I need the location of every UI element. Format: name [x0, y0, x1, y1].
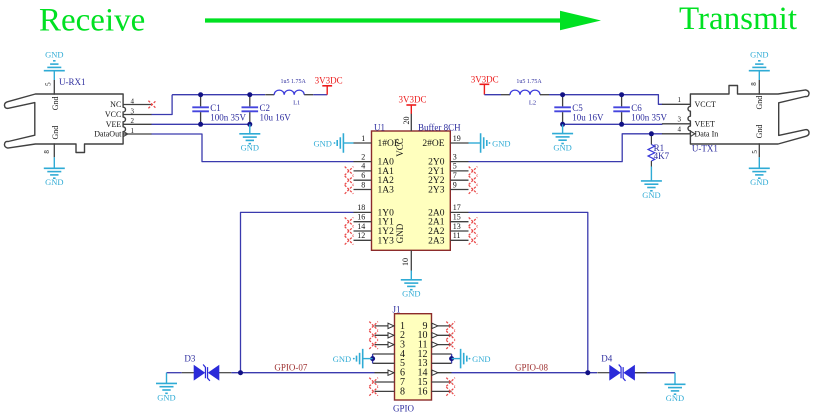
power port 3V3DC left [322, 85, 332, 87]
junction dot R1 top [649, 131, 654, 136]
wire VCC from U-RX1 pin 3 to top rail [152, 95, 173, 115]
svg-text:Buffer 8CH: Buffer 8CH [418, 122, 461, 132]
svg-text:3V3DC: 3V3DC [471, 75, 499, 85]
U1 left pin numbers [357, 134, 365, 240]
no-ERC cross on U-RX1 pin 4 NC [148, 101, 156, 109]
svg-text:10u 16V: 10u 16V [260, 112, 292, 122]
power port 3V3DC above U1 [406, 104, 416, 106]
svg-text:6: 6 [361, 171, 365, 180]
svg-text:GND: GND [750, 177, 768, 187]
svg-text:8: 8 [750, 82, 758, 86]
ground GND below U-RX1 [53, 157, 55, 168]
svg-text:GND: GND [395, 223, 405, 243]
svg-text:D4: D4 [601, 353, 612, 363]
svg-text:GND: GND [333, 354, 351, 364]
svg-text:20: 20 [402, 117, 411, 125]
wire U1 1Y0 to GPIO-07 riser [241, 212, 354, 372]
svg-text:GND: GND [553, 143, 571, 153]
capacitor C1 [200, 95, 202, 106]
wire U1 2Y0 to Data In [469, 134, 663, 162]
svg-text:GND: GND [45, 177, 63, 187]
U-TX1 pin 8 stub [758, 80, 760, 95]
svg-text:3: 3 [453, 152, 457, 161]
J1 right pin stubs [432, 326, 452, 392]
svg-text:5: 5 [751, 150, 759, 154]
svg-text:3: 3 [678, 116, 682, 124]
svg-text:Gnd: Gnd [755, 125, 764, 139]
svg-text:VEET: VEET [695, 119, 716, 128]
U1 right pin names [422, 139, 444, 246]
wire U1 2A0 to GPIO-08 riser [469, 212, 588, 372]
svg-text:1Y3: 1Y3 [378, 236, 395, 246]
svg-text:GPIO-08: GPIO-08 [515, 363, 548, 373]
ground GND above U-TX1 [758, 71, 760, 80]
op-amp U1 buffer body [372, 131, 451, 250]
svg-text:D3: D3 [184, 354, 195, 364]
svg-text:3V3DC: 3V3DC [399, 94, 427, 104]
junction dot J1 right tie [449, 356, 454, 361]
wire DataOut to U1 1A0 [152, 134, 354, 162]
power port 3V3DC right [480, 83, 490, 85]
svg-text:10u 16V: 10u 16V [572, 112, 604, 122]
svg-text:U1: U1 [374, 122, 385, 132]
svg-text:2: 2 [361, 152, 365, 161]
svg-text:VCC: VCC [395, 138, 405, 157]
svg-text:Transmit: Transmit [679, 1, 797, 37]
svg-text:Gnd: Gnd [755, 96, 764, 110]
junction dots RX rails [198, 92, 203, 97]
U-TX1 pin 5 stub [758, 143, 760, 157]
svg-text:VCC: VCC [105, 110, 121, 119]
inductor L2 [501, 94, 510, 96]
capacitor C2 [249, 95, 251, 106]
svg-text:GND: GND [402, 289, 420, 299]
svg-text:L1: L1 [293, 100, 300, 107]
svg-text:17: 17 [453, 203, 461, 212]
ground GND above U-RX1 [53, 71, 55, 80]
svg-text:DataOut: DataOut [94, 130, 122, 139]
svg-text:7: 7 [453, 171, 457, 180]
svg-text:10: 10 [401, 258, 410, 266]
junction dots right rails [560, 92, 565, 97]
J1 pin numbers [400, 321, 428, 398]
ground GND right of J1 [452, 358, 461, 360]
connector J1 body [395, 314, 432, 400]
junction dot GPIO-07 [238, 370, 243, 375]
resistor R1 [650, 136, 652, 145]
svg-text:GND: GND [241, 143, 259, 153]
svg-text:8: 8 [43, 150, 51, 154]
svg-text:2#OE: 2#OE [422, 139, 444, 149]
ground GND left of D3 [166, 373, 168, 384]
ground GND left of J1 [363, 358, 372, 360]
ground GND below U-TX1 [758, 157, 760, 168]
svg-text:1: 1 [361, 134, 365, 143]
U-RX1 pin 5 stub [53, 80, 55, 95]
U1 pin 10 stub [410, 250, 412, 270]
diode D3 TVS [182, 372, 195, 374]
U-RX1 pin stubs [123, 104, 152, 106]
svg-text:GPIO: GPIO [393, 403, 415, 413]
svg-text:8: 8 [361, 180, 365, 189]
svg-text:GPIO-07: GPIO-07 [274, 362, 307, 372]
svg-text:100n 35V: 100n 35V [631, 112, 667, 122]
signal-flow arrow [205, 18, 562, 22]
svg-text:L2: L2 [529, 100, 536, 107]
svg-text:1u5 1.75A: 1u5 1.75A [516, 79, 542, 85]
capacitor C6 [621, 95, 623, 106]
U-TX1 Data In edge marker [690, 131, 695, 136]
junction dot J1 left tie [370, 356, 375, 361]
svg-text:8: 8 [400, 386, 405, 397]
svg-text:GND: GND [472, 354, 490, 364]
svg-text:14: 14 [357, 222, 365, 231]
U-TX1 pin stubs [662, 103, 691, 105]
svg-text:1u5 1.75A: 1u5 1.75A [281, 79, 307, 85]
svg-text:2A3: 2A3 [428, 236, 445, 246]
svg-text:16: 16 [357, 213, 365, 222]
svg-text:NC: NC [110, 100, 121, 109]
svg-text:4: 4 [678, 126, 682, 134]
inductor L1 [265, 94, 274, 96]
svg-text:4K7: 4K7 [654, 151, 670, 161]
svg-text:5: 5 [45, 82, 53, 86]
svg-text:5: 5 [453, 162, 457, 171]
ground GND right of D4 [647, 372, 675, 374]
svg-text:GND: GND [642, 190, 660, 200]
ground GND below R1 [650, 167, 652, 181]
ground GND at U1 pin 19 [469, 142, 481, 144]
wire 3V3DC to L2 [484, 94, 501, 96]
wire GPIO-07 [167, 372, 182, 374]
svg-text:11: 11 [453, 231, 461, 240]
svg-text:Gnd: Gnd [51, 126, 60, 140]
diode D4 TVS [597, 372, 610, 374]
wire RX 3V3 top rail [172, 94, 265, 96]
svg-text:GND: GND [313, 138, 331, 148]
connector U-RX1 body [4, 94, 125, 153]
no-ERC crosses U1 unused pins [345, 167, 478, 245]
U1 right pin stubs [450, 143, 468, 240]
wire GPIO-08 [452, 372, 598, 374]
svg-text:GND: GND [666, 393, 684, 403]
svg-text:12: 12 [357, 231, 365, 240]
wire VCCT top rail [549, 95, 662, 105]
svg-text:GND: GND [157, 392, 175, 402]
svg-text:19: 19 [453, 134, 461, 143]
capacitor C5 [562, 95, 564, 106]
svg-text:2Y3: 2Y3 [428, 186, 445, 196]
svg-text:15: 15 [453, 213, 461, 222]
U1 left pin names [378, 139, 400, 246]
ground GND at U1 pin 1 [344, 142, 354, 144]
svg-text:VEE: VEE [106, 120, 122, 129]
junction dot GPIO-08 [585, 370, 590, 375]
svg-text:U-RX1: U-RX1 [59, 77, 86, 87]
svg-text:1: 1 [678, 96, 682, 104]
ground GND below C2 [249, 124, 251, 134]
U1 pin 20 stub [410, 114, 412, 132]
svg-text:4: 4 [361, 162, 365, 171]
J1 pin arrows [388, 323, 438, 375]
svg-text:13: 13 [453, 222, 461, 231]
connector U-TX1 body [688, 86, 809, 145]
svg-text:Data In: Data In [695, 129, 719, 138]
svg-text:J1: J1 [393, 304, 401, 314]
svg-text:16: 16 [418, 386, 428, 397]
U-RX1 DataOut edge marker [123, 131, 128, 136]
ground GND below C5 [562, 124, 564, 133]
no-ERC crosses J1 unused pins [369, 322, 455, 396]
svg-text:100n 35V: 100n 35V [210, 112, 246, 122]
U-RX1 pin 8 stub [53, 143, 55, 157]
svg-text:GND: GND [492, 138, 510, 148]
wire J1 pins 12-13 tie [451, 354, 453, 363]
svg-text:GND: GND [750, 49, 768, 59]
svg-text:Gnd: Gnd [51, 97, 60, 111]
wire J1 pins 4-5 tie [372, 354, 374, 363]
svg-text:1A3: 1A3 [378, 186, 395, 196]
svg-text:GND: GND [45, 49, 63, 59]
ground GND below U1 pin 10 [410, 271, 412, 280]
wire VEET rail [563, 123, 663, 125]
U1 left pin stubs [354, 143, 372, 240]
svg-text:18: 18 [357, 203, 365, 212]
svg-text:VCCT: VCCT [695, 100, 716, 109]
svg-text:Receive: Receive [39, 2, 145, 38]
svg-text:3V3DC: 3V3DC [315, 76, 343, 86]
J1 left pin stubs [373, 326, 395, 392]
wire L1 to 3V3DC [313, 94, 327, 96]
wire VEE rail [152, 123, 250, 125]
svg-text:U-TX1: U-TX1 [692, 143, 718, 153]
U1 right pin numbers [453, 134, 461, 240]
svg-text:9: 9 [453, 180, 457, 189]
